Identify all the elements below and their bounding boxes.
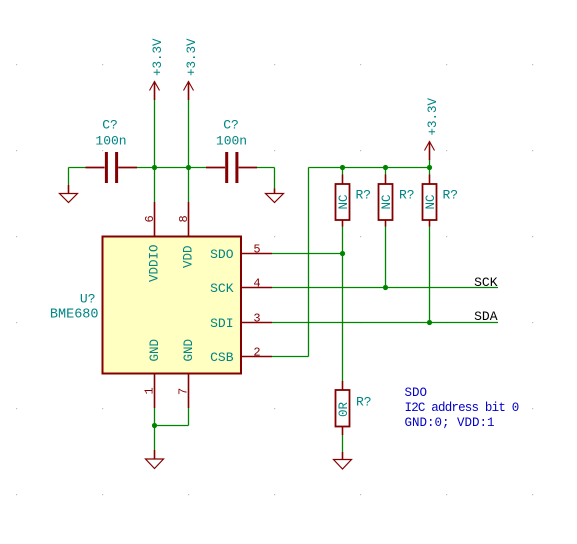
wire GND net under IC: [155, 408, 189, 450]
svg-text:SCK: SCK: [210, 281, 234, 296]
resistor R3 R? NC: [423, 175, 459, 227]
capacitor C1 C? 100n: [86, 118, 138, 184]
svg-text:4: 4: [253, 277, 260, 291]
svg-text:U?: U?: [80, 292, 96, 307]
wire R3 vertical: [429, 160, 431, 323]
svg-text:R?: R?: [356, 395, 372, 410]
junction rail / R2: [383, 165, 388, 170]
svg-text:8: 8: [177, 215, 191, 222]
resistor R1 R? NC: [336, 175, 372, 227]
svg-text:I2C address bit 0: I2C address bit 0: [405, 401, 519, 415]
wire CSB to +3.3V rail: [272, 168, 309, 357]
junction pins 1+7 GND: [152, 423, 157, 428]
pin 7 GND bottom: [188, 374, 190, 409]
svg-text:1: 1: [143, 387, 157, 394]
svg-text:+3.3V: +3.3V: [426, 97, 440, 135]
pin 8 VDD top: [188, 202, 190, 237]
wire R4 to ground: [342, 435, 344, 452]
svg-text:2: 2: [253, 346, 260, 360]
wire SCK net: [272, 287, 498, 289]
wire pullup +3.3V rail top right: [309, 167, 430, 169]
capacitor C2 C? 100n: [206, 118, 257, 184]
pin 1 GND bottom: [154, 374, 156, 409]
resistor R4 R? 0R address select: [336, 381, 372, 435]
svg-text:3: 3: [253, 312, 260, 326]
wire SDA net: [272, 322, 498, 324]
ground GND1 left of C1: [60, 185, 78, 203]
junction SCK wire / R2: [383, 285, 388, 290]
svg-text:GND: GND: [182, 339, 196, 362]
pin 5 SDO right: [242, 253, 273, 255]
pin 4 SCK right: [242, 287, 273, 289]
svg-text:C?: C?: [223, 118, 239, 133]
wire SDO pin5 to pull resistor: [272, 253, 343, 255]
ic U? BME680: [50, 202, 272, 408]
svg-text:6: 6: [143, 215, 157, 222]
pin 3 SDI right: [242, 322, 273, 324]
wire R2 vertical: [385, 168, 387, 288]
svg-text:100n: 100n: [95, 134, 126, 149]
svg-text:+3.3V: +3.3V: [151, 38, 165, 76]
svg-text:NC: NC: [424, 194, 438, 209]
power +3.3V symbol PWR1: [150, 38, 166, 100]
svg-text:C?: C?: [102, 118, 118, 133]
svg-text:R?: R?: [443, 188, 459, 203]
svg-text:0R: 0R: [337, 401, 351, 417]
svg-text:VDD: VDD: [182, 245, 196, 268]
pin 6 VDDIO top: [154, 202, 156, 237]
svg-text:SDI: SDI: [210, 316, 233, 331]
junction SDA wire / R3: [427, 320, 432, 325]
power +3.3V symbol PWR3 top right: [425, 97, 441, 160]
svg-text:NC: NC: [380, 194, 394, 209]
svg-text:R?: R?: [399, 188, 415, 203]
svg-text:SDO: SDO: [405, 386, 428, 400]
junction rail / R1: [340, 165, 345, 170]
junction at C1 / VDDIO rail: [152, 165, 157, 170]
svg-text:CSB: CSB: [210, 350, 234, 365]
svg-text:+3.3V: +3.3V: [185, 38, 199, 76]
junction SDO wire / R1: [340, 251, 345, 256]
svg-text:VDDIO: VDDIO: [148, 244, 162, 282]
svg-text:SDO: SDO: [210, 247, 234, 262]
svg-text:5: 5: [253, 243, 260, 257]
svg-text:SCK: SCK: [474, 275, 498, 290]
svg-text:GND: GND: [148, 339, 162, 362]
ground GND3 under IC: [146, 450, 164, 469]
wire R1 vertical / SDO column: [342, 168, 344, 382]
svg-text:NC: NC: [337, 194, 351, 209]
ground GND4 under R4: [334, 452, 352, 469]
resistor R2 R? NC: [379, 175, 415, 227]
svg-text:100n: 100n: [216, 134, 247, 149]
pin 2 CSB right: [242, 356, 273, 358]
svg-text:BME680: BME680: [50, 308, 99, 323]
wire +3.3V rail between decoupling caps: [69, 100, 275, 202]
svg-text:7: 7: [177, 388, 191, 395]
power +3.3V symbol PWR2: [184, 38, 200, 100]
junction rail / R3 power: [427, 165, 432, 170]
ground GND2 right of C2: [266, 189, 284, 203]
svg-text:SDA: SDA: [474, 309, 498, 324]
note text SDO I2C address bit: [405, 386, 519, 430]
svg-text:GND:0; VDD:1: GND:0; VDD:1: [405, 416, 495, 430]
svg-text:R?: R?: [356, 188, 372, 203]
junction at C2 / VDD rail: [186, 165, 191, 170]
